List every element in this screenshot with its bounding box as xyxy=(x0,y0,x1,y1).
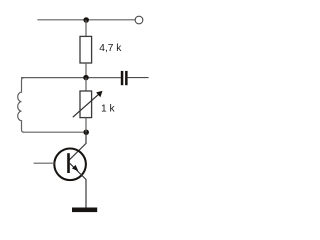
inductor L1 xyxy=(18,78,24,133)
potentiometer P1 1 k (body) xyxy=(80,91,92,118)
potentiometer arrowhead xyxy=(96,91,102,98)
wire: top rail xyxy=(37,19,135,21)
capacitor C1 xyxy=(121,71,128,85)
transistor Q1 (NPN) circle xyxy=(54,149,86,181)
node: junction dot 1 xyxy=(83,17,89,23)
svg-text:1 k: 1 k xyxy=(101,103,115,114)
wire: dot1 down to resistor top xyxy=(85,20,87,36)
node: junction dot 2 xyxy=(83,75,89,81)
transistor emitter arrowhead xyxy=(72,165,78,171)
wire: resistor bottom to node 2 xyxy=(85,63,87,78)
ground xyxy=(72,208,97,213)
resistor R1 4,7 k xyxy=(80,36,92,63)
wire: node2 down to potentiometer top xyxy=(85,78,87,91)
wire: collector lead (node3 down, diagonal into transistor) xyxy=(69,132,86,160)
wire: middle rail (inductor top to capacitor) xyxy=(21,77,121,79)
terminal: open circle output xyxy=(135,16,143,24)
node: junction dot 3 xyxy=(83,129,89,135)
svg-text:4,7 k: 4,7 k xyxy=(99,43,122,54)
wire: potentiometer bottom to node 3 xyxy=(85,118,87,133)
transistor base bar xyxy=(67,153,70,173)
wire: capacitor right lead xyxy=(128,77,149,79)
wire: bottom rail (inductor bottom to node 3) xyxy=(24,131,87,133)
wire: base lead xyxy=(34,162,55,164)
potentiometer arrow shaft xyxy=(73,94,99,117)
wire: emitter lead (diagonal out of transistor, down to ground) xyxy=(69,162,86,207)
